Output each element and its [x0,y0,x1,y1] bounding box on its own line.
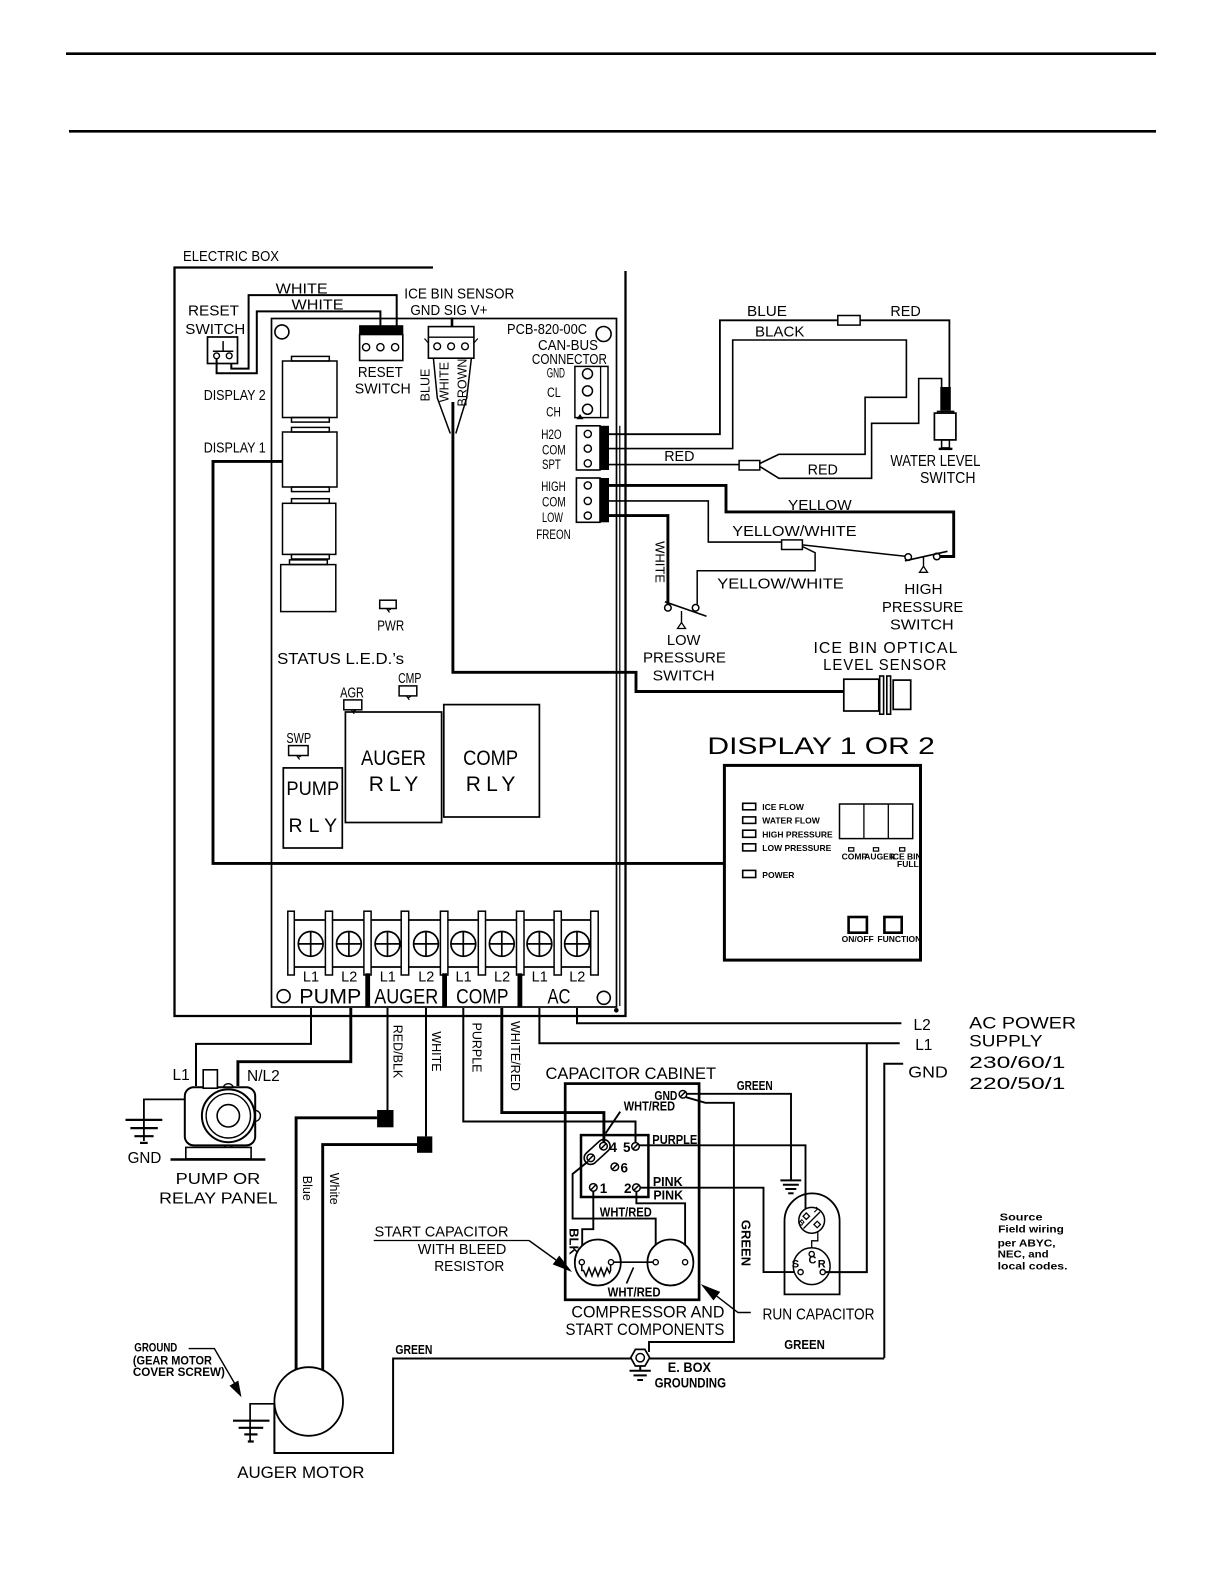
svg-text:FREON: FREON [536,527,570,542]
svg-text:YELLOW: YELLOW [788,497,853,514]
pump body [185,1087,255,1145]
relay K2 AUGER RLY [345,712,441,823]
run capacitor top terminal circle [799,1207,825,1233]
svg-text:AC: AC [548,985,571,1009]
svg-text:SWP: SWP [286,731,311,747]
terminal strip TB1 body [288,920,598,967]
svg-text:RED: RED [664,448,694,465]
wire fuse branch to low pressure switch [697,547,815,605]
terminal strip divider tabs [288,911,598,975]
svg-text:BLUE: BLUE [747,303,787,320]
jumper link on terminal 4 [582,1137,613,1167]
svg-text:L2: L2 [914,1017,931,1034]
svg-text:ICE BIN OPTICAL: ICE BIN OPTICAL [814,640,959,657]
wire funnel right side [456,358,472,433]
header rule top [66,52,1156,55]
svg-text:L2: L2 [569,970,585,986]
svg-text:6: 6 [621,1160,629,1175]
group separator bar COMP/AC [518,973,523,1007]
start capacitor left terminal [579,1260,584,1265]
mini LED AUGER [873,848,878,851]
svg-text:FUNCTION: FUNCTION [877,934,921,944]
panel LED HIGH PRESSURE [743,830,756,837]
svg-text:WITH BLEED: WITH BLEED [418,1241,507,1258]
SWP LED [289,746,309,760]
mini LED ICE BIN [900,848,905,851]
svg-text:Field wiring: Field wiring [998,1224,1064,1236]
svg-text:START CAPACITOR: START CAPACITOR [375,1224,509,1241]
relay K3 COMP RLY [444,705,540,817]
svg-text:GREEN: GREEN [737,1078,773,1093]
panel LED ICE FLOW [743,803,756,810]
button FUNCTION [884,917,901,933]
wire DISPLAY 1 to remote display panel [213,461,724,863]
svg-text:GROUND: GROUND [134,1343,177,1355]
wire Blue to auger motor [296,1118,377,1370]
water level switch [934,387,956,449]
svg-text:DISPLAY 1: DISPLAY 1 [204,441,266,457]
svg-text:GREEN: GREEN [395,1342,432,1357]
svg-text:RELAY PANEL: RELAY PANEL [159,1191,278,1208]
junction dot PCB bottom-right [614,1008,619,1013]
wire H2O/BLUE to water level switch [609,320,949,434]
terminal 1 screw [590,1184,598,1192]
svg-text:E. BOX: E. BOX [668,1360,711,1375]
start capacitor [575,1240,621,1286]
svg-text:SWITCH: SWITCH [185,322,245,338]
svg-text:WHT/RED: WHT/RED [608,1285,661,1300]
svg-text:L1: L1 [173,1067,190,1084]
terminal 2 screw [633,1184,641,1192]
wire start cap to overload [614,1261,654,1263]
svg-text:BLACK: BLACK [755,324,804,341]
svg-text:ELECTRIC BOX: ELECTRIC BOX [183,249,279,265]
svg-text:PUMP OR: PUMP OR [176,1171,261,1188]
external reset switch S1 [208,337,238,364]
svg-text:WHT/RED: WHT/RED [600,1205,652,1220]
wire BLK to overload [573,1162,656,1260]
svg-text:WHITE: WHITE [429,1031,443,1071]
auger motor circle [274,1367,343,1436]
CAN-BUS connector [575,366,608,419]
terminal strip screw AC L1 [527,932,552,957]
wire terminal 1 to start capacitor [582,1191,593,1259]
svg-text:R: R [818,1258,826,1270]
svg-text:220/50/1: 220/50/1 [969,1074,1065,1093]
svg-text:L2: L2 [418,970,434,986]
svg-text:PINK: PINK [653,1188,683,1203]
svg-text:PUMP: PUMP [286,778,339,800]
svg-text:ICE FLOW: ICE FLOW [762,802,805,812]
svg-text:WHITE: WHITE [437,362,451,402]
svg-text:PUMP: PUMP [299,985,361,1009]
ice bin sensor connector on PCB [425,327,478,359]
splice WHITE to White [417,1136,432,1152]
AGR LED [344,700,362,714]
svg-text:L1: L1 [915,1037,932,1054]
svg-text:LOW: LOW [542,510,563,525]
svg-text:White: White [327,1173,341,1205]
svg-text:H2O: H2O [541,427,562,442]
wire COMP L2 WHT/RED to terminal 4 [502,1008,604,1143]
capacitor cabinet enclosure [565,1084,699,1300]
svg-text:ON/OFF: ON/OFF [842,934,874,944]
wire PINK terminal 2 to run capacitor S [640,1188,798,1272]
wire GND stub and down lead [884,1064,903,1358]
svg-text:SWITCH: SWITCH [890,616,954,633]
H2O/COM/SPT connector [576,426,609,470]
svg-text:WHITE/RED: WHITE/RED [508,1021,522,1091]
terminal strip screw PUMP L2 [337,932,362,957]
PCB mounting hole bottom-left [277,990,290,1003]
svg-text:CL: CL [547,385,561,400]
svg-text:CMP: CMP [398,671,421,687]
seven segment display window [840,804,913,839]
svg-text:1: 1 [600,1181,608,1196]
terminal 4 screw [600,1142,608,1150]
terminal 5 screw [632,1143,640,1151]
terminal strip screw AUGER L2 [414,932,439,957]
svg-text:YELLOW/WHITE: YELLOW/WHITE [717,576,844,593]
svg-text:GROUNDING: GROUNDING [655,1376,726,1391]
pump hub [217,1105,239,1127]
svg-text:SUPPLY: SUPPLY [969,1032,1042,1051]
pump volute ring [206,1094,250,1138]
ground symbol (e box) [630,1366,651,1380]
wire COM/BLACK stair to fuse [609,340,906,464]
svg-text:Blue: Blue [300,1176,314,1201]
svg-text:N/L2: N/L2 [247,1068,280,1085]
svg-text:YELLOW/WHITE: YELLOW/WHITE [732,523,856,540]
svg-text:5: 5 [623,1140,631,1155]
svg-text:SWITCH: SWITCH [653,667,715,684]
ice bin optical level sensor body [844,676,911,714]
fuse in RED line [739,461,760,471]
svg-text:GND: GND [547,365,565,380]
terminal strip screw AUGER L1 [375,932,400,957]
svg-text:RUN CAPACITOR: RUN CAPACITOR [763,1307,875,1324]
svg-text:GND SIG V+: GND SIG V+ [410,302,487,319]
PCB reset switch [360,326,403,361]
svg-text:L1: L1 [303,970,319,986]
svg-text:SPT: SPT [542,457,561,472]
svg-text:RED/BLK: RED/BLK [391,1025,405,1079]
svg-text:L2: L2 [341,970,357,986]
svg-text:COM: COM [542,442,566,457]
svg-text:AUGER: AUGER [361,747,426,770]
pump ears [196,1084,260,1148]
PCB board outline [272,319,617,1008]
svg-text:RED: RED [808,462,838,479]
RUN CAPACITOR leader arrowhead [701,1284,720,1300]
wire AUGER L1 RED/BLK [387,1008,389,1110]
svg-text:START COMPONENTS: START COMPONENTS [566,1321,725,1339]
wire LOW/WHITE to low pressure switch [609,516,668,605]
svg-text:LOW: LOW [667,632,701,649]
PCB mounting hole bottom-right [597,991,610,1004]
wire COMP L1 PURPLE to terminal 5 [463,1008,635,1146]
wire WHITE 2 (reset switch to PCB) [217,311,381,373]
svg-text:230/60/1: 230/60/1 [969,1053,1065,1072]
svg-text:CAPACITOR CABINET: CAPACITOR CABINET [546,1065,717,1083]
wire White to auger motor [323,1145,417,1370]
wire top terminal to C terminal [812,1232,818,1252]
svg-text:2: 2 [624,1181,632,1196]
wire WHITE 1 (reset switch to PCB) [231,295,396,369]
svg-text:AUGER: AUGER [374,985,438,1009]
svg-text:HIGH PRESSURE: HIGH PRESSURE [762,829,833,839]
fuse in YELLOW/WHITE line [782,540,803,550]
terminal labels L1 L2 row [303,970,585,986]
E box grounding hex nut [631,1349,650,1366]
svg-text:WATER LEVEL: WATER LEVEL [890,453,980,470]
run capacitor bottom terminal circle [793,1248,830,1285]
svg-text:BLUE: BLUE [419,369,433,402]
svg-text:WHITE: WHITE [276,281,328,298]
wire AUGER L2 WHITE [425,1008,427,1136]
terminal strip screw AC L2 [565,932,590,957]
wire COM to yellow/white fuse [609,501,782,542]
svg-text:GREEN: GREEN [784,1337,825,1352]
PCB mounting hole top-left [275,325,289,339]
low pressure switch [665,602,707,629]
svg-text:WHT/RED: WHT/RED [624,1098,675,1113]
svg-text:GND: GND [128,1150,162,1167]
panel LED WATER FLOW [743,817,756,824]
wire terminal 5 to run capacitor T [639,1145,805,1215]
wire AC L2 [577,1008,901,1023]
svg-text:STATUS L.E.D.’s: STATUS L.E.D.’s [277,651,404,668]
terminal 6 screw [611,1163,619,1171]
wire ice bin sensor harness to optical sensor [453,402,844,692]
panel LED POWER [743,870,756,877]
wire auger motor ground stub [250,1404,274,1441]
svg-text:PCB-820-00C: PCB-820-00C [507,322,587,338]
display panel enclosure [724,765,920,960]
wire SPT/RED to fuse [609,464,739,466]
PCB inner edge line [619,426,621,1006]
wire GREEN cabinet gnd to chassis [687,1094,791,1180]
svg-text:PWR: PWR [377,619,404,635]
high pressure switch [905,551,948,572]
wire HIGH/YELLOW to high pressure switch [609,485,954,556]
top terminal bar and screws [803,1212,820,1229]
wire AC L1 [539,1008,899,1043]
overload protector [647,1240,693,1286]
relay K1 PUMP RLY [283,768,342,848]
leader to gear motor cover screw [189,1349,235,1384]
source field wiring note [998,1211,1068,1272]
wire fuse to high pressure switch contact [802,545,905,556]
leader to start capacitor [529,1241,556,1261]
svg-text:COMPRESSOR AND: COMPRESSOR AND [571,1304,724,1322]
wire auger motor GREEN [274,1359,884,1454]
svg-text:AGR: AGR [340,686,364,702]
svg-text:WHITE: WHITE [292,297,344,314]
svg-text:PURPLE: PURPLE [470,1022,484,1072]
svg-text:L1: L1 [380,970,396,986]
wire GREEN cabinet gnd to ebox grounding [649,1097,734,1352]
svg-text:L1: L1 [532,970,548,986]
svg-text:WHITE: WHITE [653,541,668,583]
svg-text:SWITCH: SWITCH [355,382,411,398]
panel LED LOW PRESSURE [743,844,756,851]
start capacitor right terminal [608,1260,613,1265]
wire PUMP L2 (N/L2) to pump [238,1008,351,1086]
WHT/RED slash leader [627,1268,634,1284]
svg-text:RESET: RESET [358,365,403,381]
svg-text:AUGER MOTOR: AUGER MOTOR [237,1463,364,1482]
svg-text:HIGH: HIGH [904,581,942,598]
svg-text:RESET: RESET [188,304,239,320]
group separator bar AUGER/COMP [442,973,447,1007]
wire WHT/RED diagonal stub [606,1112,621,1134]
svg-text:BROWN: BROWN [456,359,470,407]
display connector J1 [283,356,338,422]
svg-text:COM: COM [542,495,566,510]
button ON/OFF [849,917,867,933]
svg-text:HIGH: HIGH [541,479,566,494]
svg-text:local codes.: local codes. [998,1260,1068,1272]
svg-text:Source: Source [1000,1211,1043,1223]
ground symbol (auger motor) [233,1421,270,1442]
svg-text:LOW PRESSURE: LOW PRESSURE [762,843,831,853]
splice RED/BLK to Blue [377,1110,393,1127]
leader arrowhead (start capacitor) [553,1256,572,1272]
display connector J3 [283,499,336,559]
svg-text:(GEAR MOTOR: (GEAR MOTOR [133,1355,213,1367]
pump base [171,1147,266,1159]
pump tab [203,1070,217,1088]
svg-text:SWITCH: SWITCH [920,470,976,487]
svg-text:COMP: COMP [463,747,518,770]
group separator bar PUMP/AUGER [365,973,370,1007]
electric box enclosure [175,268,626,1017]
svg-text:AC POWER: AC POWER [969,1014,1076,1033]
jumper second screw [587,1154,595,1162]
mini LED COMP [849,848,854,851]
svg-text:L2: L2 [494,970,510,986]
run capacitor body [785,1193,840,1294]
leader arrowhead [230,1381,242,1398]
terminal strip screw PUMP L1 [298,932,323,957]
RUN CAPACITOR leader [717,1296,751,1312]
svg-text:NEC, and: NEC, and [998,1249,1049,1261]
HIGH/COM/LOW freon connector [576,478,609,522]
wire funnel left side [433,358,450,433]
svg-text:FULL: FULL [897,859,919,869]
svg-text:DISPLAY 2: DISPLAY 2 [204,388,266,404]
wire PUMP L1 to pump [196,1008,311,1086]
wire pump GND [144,1099,185,1141]
terminal strip screw COMP L2 [489,932,514,957]
svg-text:DISPLAY 1 OR 2: DISPLAY 1 OR 2 [707,733,935,760]
svg-text:RLY: RLY [466,773,516,796]
svg-text:GREEN: GREEN [739,1220,754,1266]
svg-text:PRESSURE: PRESSURE [643,650,726,667]
display connector J2 [283,427,338,491]
svg-text:CONNECTOR: CONNECTOR [532,352,607,368]
svg-text:COMP: COMP [456,985,508,1009]
svg-text:RLY: RLY [288,815,337,837]
svg-text:CH: CH [546,405,561,420]
svg-text:RESISTOR: RESISTOR [434,1258,504,1275]
fuse in BLUE/RED line [838,316,860,326]
svg-text:COVER SCREW): COVER SCREW) [133,1367,225,1379]
sensor feed wire stub above connector [451,318,454,327]
PWR LED [380,600,397,612]
overload right terminal [683,1260,688,1265]
PCB mounting hole top-right [596,327,611,342]
svg-text:L1: L1 [456,970,472,986]
header rule bottom [69,130,1156,133]
svg-text:C: C [809,1255,817,1267]
svg-text:POWER: POWER [762,870,794,880]
svg-text:S: S [792,1258,799,1270]
bleed resistor zigzag [582,1265,611,1276]
ground symbol (run capacitor) [780,1180,801,1193]
overload left terminal [653,1260,658,1265]
svg-text:WATER FLOW: WATER FLOW [762,815,820,825]
svg-text:RLY: RLY [369,773,419,796]
svg-text:LEVEL SENSOR: LEVEL SENSOR [823,657,947,674]
svg-text:ICE BIN SENSOR: ICE BIN SENSOR [404,286,514,303]
svg-text:RED: RED [890,303,920,320]
CMP LED [399,686,417,700]
wire R terminal to L1 [825,1043,866,1272]
terminal strip screw COMP L1 [451,932,476,957]
svg-text:GND: GND [908,1065,948,1082]
pump volute outer circle [202,1089,255,1142]
compressor terminal box [581,1135,648,1197]
cabinet GND screw [679,1091,687,1099]
display connector J4 [281,560,336,612]
R terminal [820,1270,825,1275]
C terminal [809,1251,814,1256]
ground symbol (pump) [126,1120,163,1143]
wire RED branch to water level switch [760,379,942,479]
wire PINK terminal 2 to overload [636,1192,685,1260]
svg-text:PRESSURE: PRESSURE [882,599,963,616]
S terminal [798,1270,803,1275]
